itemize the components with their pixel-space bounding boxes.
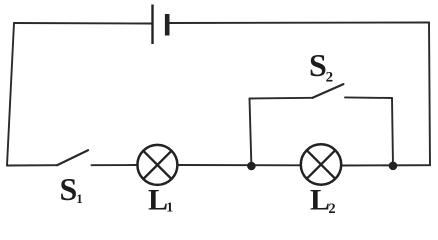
wire branch top-right (S2 to corner) (345, 96, 392, 99)
wire L2 to right corner (through node B) (341, 164, 430, 166)
wire branch left vertical (node A up) (250, 99, 252, 167)
battery long plate (positive) (151, 5, 153, 45)
wire S1 to lamp L1 (92, 164, 138, 166)
svg-text:S: S (60, 171, 78, 207)
lamp L2 circle (301, 144, 341, 184)
svg-text:1: 1 (166, 201, 173, 216)
node A junction dot (247, 162, 256, 171)
svg-text:1: 1 (76, 191, 83, 206)
svg-text:L: L (310, 183, 330, 216)
wire branch top-left (to switch S2) (250, 97, 313, 100)
switch S1 lever (57, 150, 88, 165)
wire L1 to L2 (through node A) (178, 164, 301, 166)
switch S2 lever (313, 84, 344, 98)
battery short thick plate (negative) (165, 14, 170, 36)
svg-text:2: 2 (328, 201, 335, 217)
svg-text:S: S (309, 47, 327, 83)
node B junction dot (389, 162, 398, 171)
lamp L2 cross (307, 150, 335, 178)
lamp L1 circle (137, 145, 177, 185)
lamp L1 cross (143, 151, 171, 179)
svg-text:2: 2 (326, 69, 334, 85)
svg-text:L: L (148, 183, 168, 216)
wire bottom-left (to switch S1) (7, 164, 57, 166)
wire branch right vertical (down to node B) (392, 98, 393, 166)
wire right vertical (429, 23, 430, 166)
wire top-left (left corner to battery) (14, 22, 152, 25)
wire top-right (battery to right corner) (169, 22, 429, 25)
wire left vertical (7, 23, 14, 166)
